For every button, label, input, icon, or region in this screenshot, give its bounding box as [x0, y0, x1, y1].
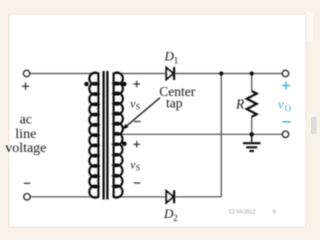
- svg-text:S: S: [136, 164, 140, 173]
- svg-text:O: O: [285, 103, 292, 113]
- svg-text:S: S: [136, 102, 140, 111]
- svg-text:12/10/2022: 12/10/2022: [228, 210, 255, 216]
- svg-text:line: line: [15, 127, 36, 142]
- svg-text:ac: ac: [20, 113, 32, 128]
- svg-text:tap: tap: [166, 96, 183, 111]
- svg-text:voltage: voltage: [5, 141, 46, 156]
- svg-text:R: R: [235, 97, 245, 112]
- svg-text:1: 1: [174, 56, 179, 66]
- svg-text:9: 9: [273, 210, 276, 216]
- svg-text:v: v: [278, 97, 284, 112]
- svg-text:2: 2: [173, 213, 178, 223]
